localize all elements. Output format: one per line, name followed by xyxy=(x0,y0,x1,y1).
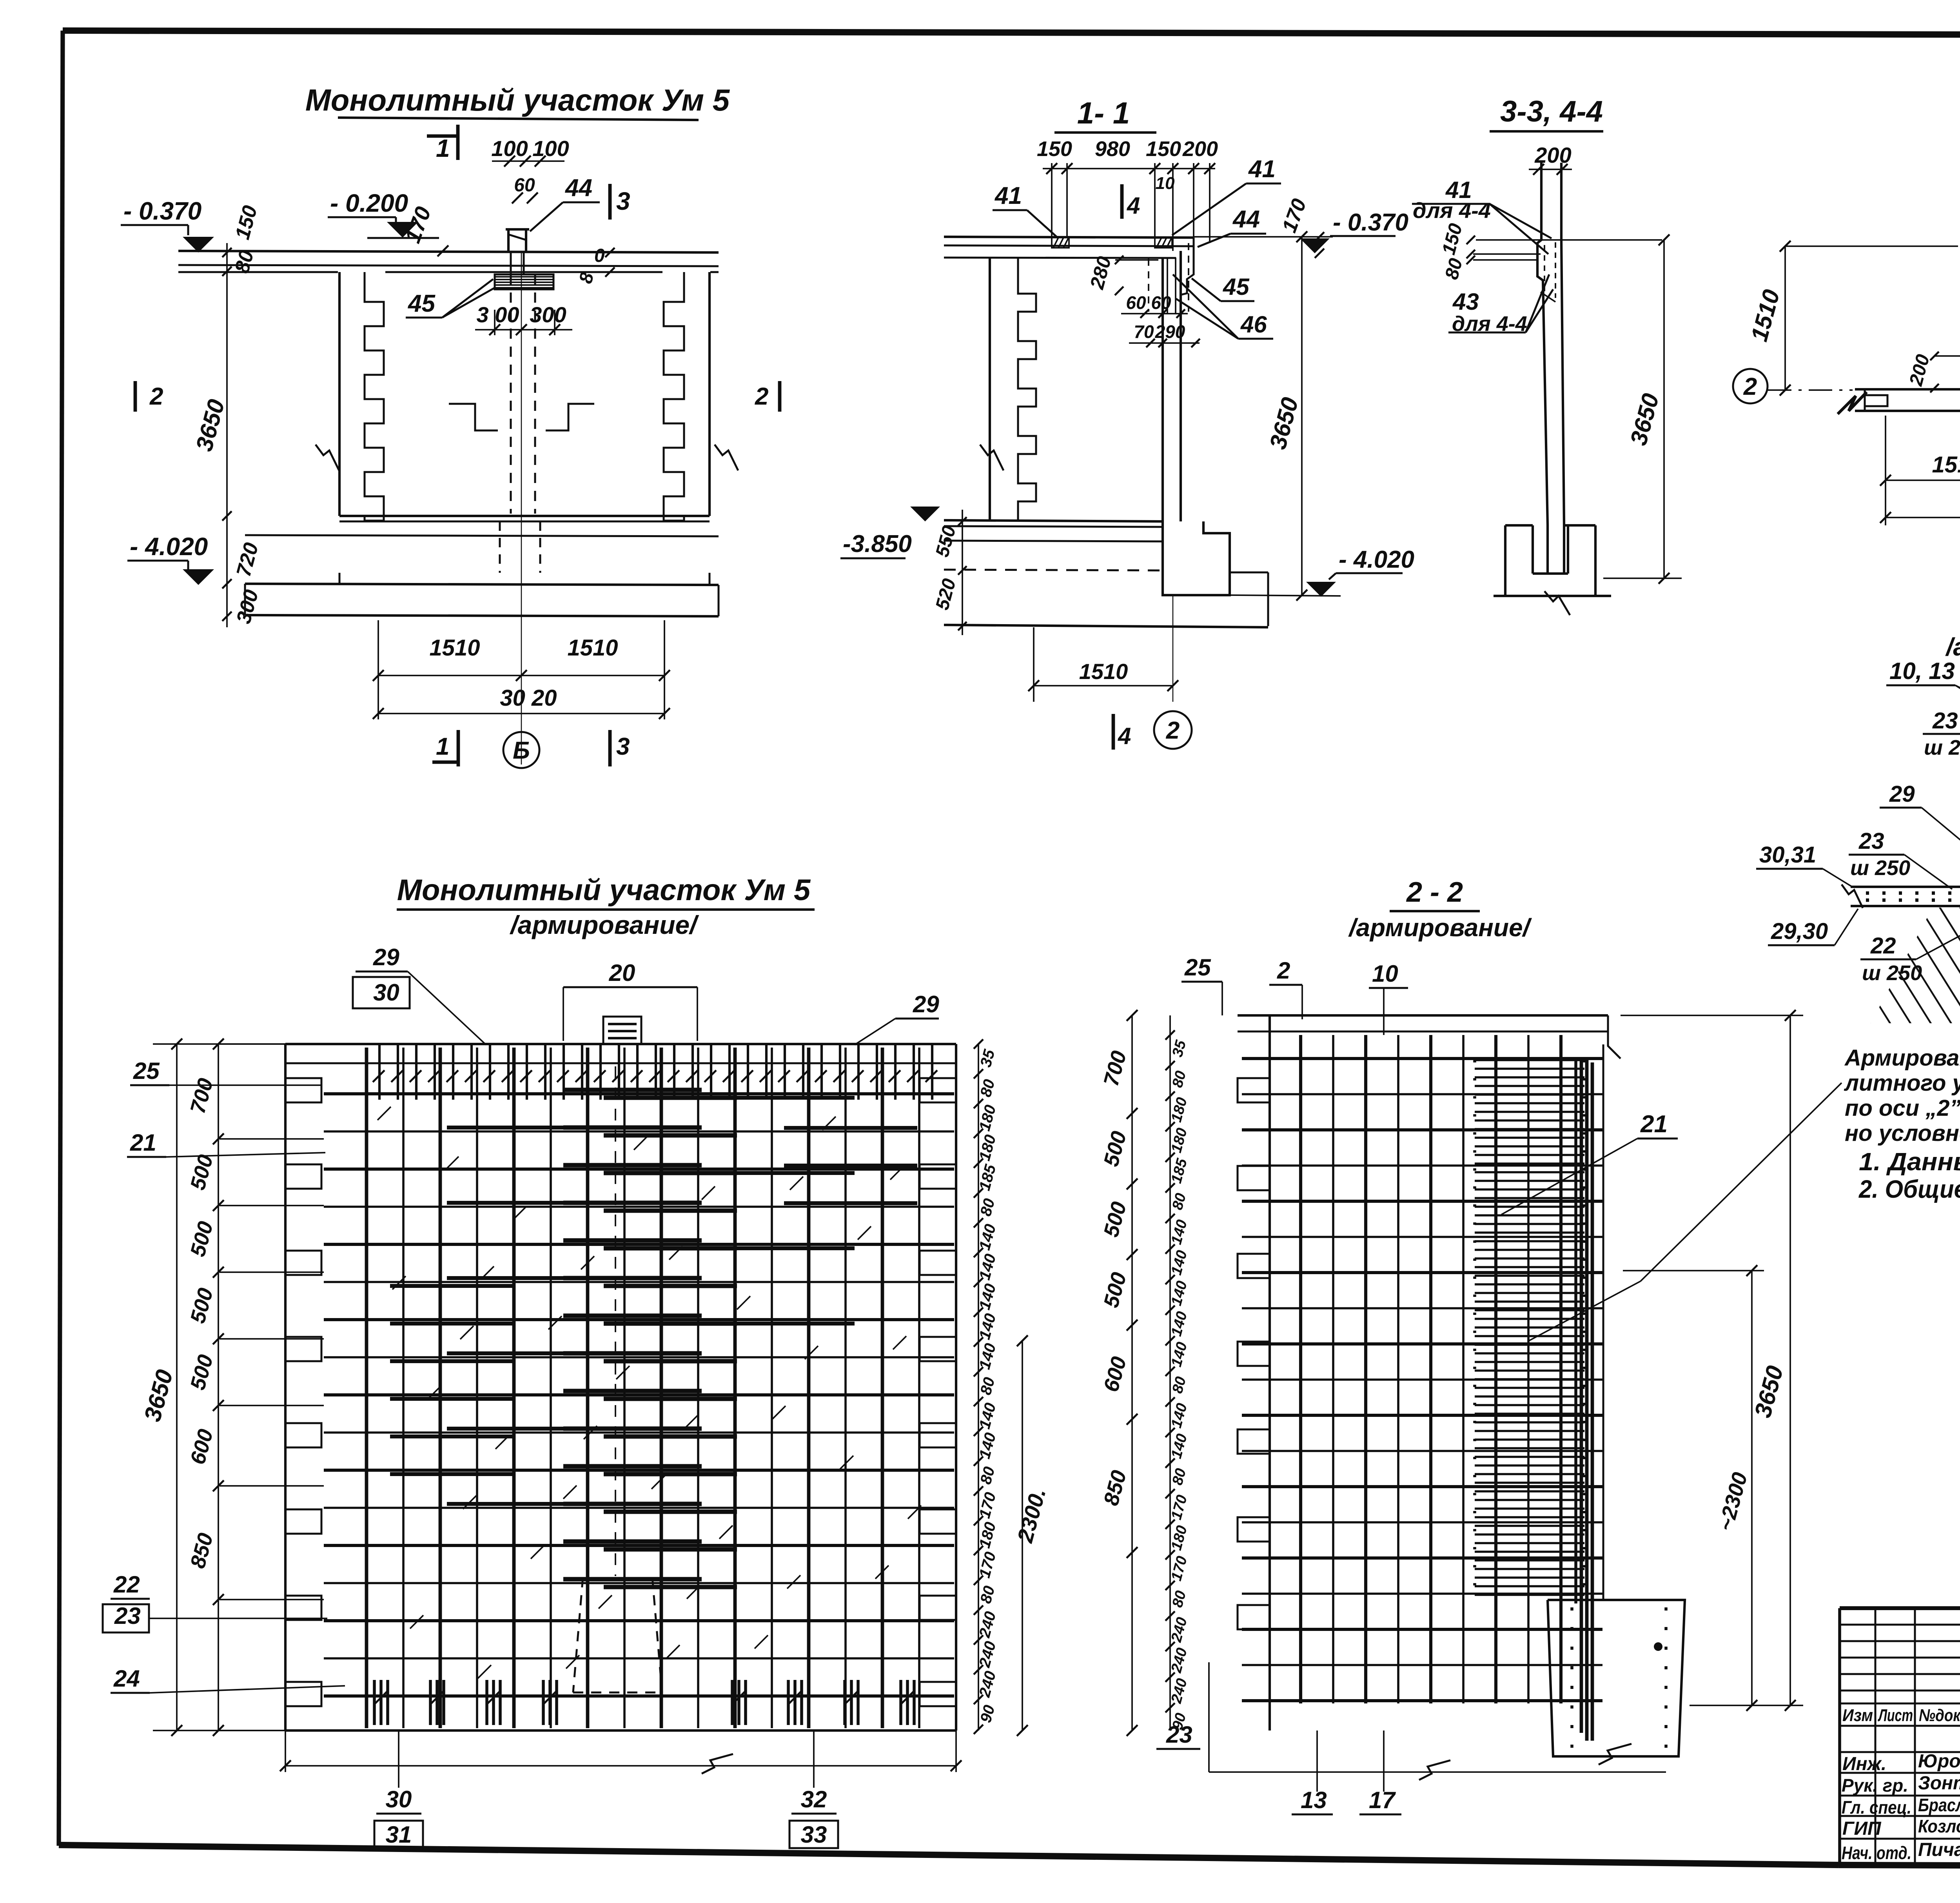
svg-text:10: 10 xyxy=(1156,174,1175,193)
2-2el left toothed edge xyxy=(1269,1015,1271,1730)
svg-text:- 4.020: - 4.020 xyxy=(130,532,208,561)
svg-text:60: 60 xyxy=(1151,292,1171,313)
svg-text:Зонтберг: Зонтберг xyxy=(1918,1773,1960,1794)
svg-text:0: 0 xyxy=(594,245,605,266)
svg-text:1. Данный лист комплектен с ли: 1. Данный лист комплектен с листами кж-6… xyxy=(1859,1148,1960,1176)
svg-text:- 0.200: - 0.200 xyxy=(330,189,408,217)
svg-text:1- 1: 1- 1 xyxy=(1077,96,1130,130)
embedded plate 45 (hatched) xyxy=(495,274,554,289)
svg-text:980: 980 xyxy=(1095,137,1130,161)
1-1 bottom dim 1510 xyxy=(1033,627,1034,702)
bottom hook clusters xyxy=(373,1680,376,1725)
foundation dashed under column xyxy=(499,521,501,573)
big plan bottom edge xyxy=(285,1729,956,1732)
svg-text:45: 45 xyxy=(1223,274,1250,300)
svg-text:4: 4 xyxy=(1118,723,1131,749)
svg-text:- 0.370: - 0.370 xyxy=(123,197,201,225)
2-2el dense rebar bundle xyxy=(1475,1059,1584,1061)
svg-text:но условно: но условно xyxy=(1845,1120,1960,1146)
svg-text:22: 22 xyxy=(113,1571,140,1598)
top center tab xyxy=(603,1017,641,1044)
mark 4 top xyxy=(1120,184,1124,219)
3-3 column tapered xyxy=(1537,163,1548,525)
3-3 footing xyxy=(1505,525,1548,574)
svg-text:ГИП: ГИП xyxy=(1842,1818,1882,1839)
2-2el right dim 2300 xyxy=(1751,1271,1753,1705)
svg-text:44: 44 xyxy=(1232,206,1260,233)
dim 1510 vertical left xyxy=(1784,246,1786,390)
svg-text:23: 23 xyxy=(114,1603,141,1629)
title block outer frame xyxy=(1840,1606,1960,1610)
svg-text:Рук. гр.: Рук. гр. xyxy=(1842,1775,1908,1796)
svg-text:150: 150 xyxy=(1146,137,1181,161)
svg-text:/армирование/: /армирование/ xyxy=(509,910,699,939)
svg-text:для 4-4: для 4-4 xyxy=(1413,198,1491,223)
wall break marks xyxy=(316,445,339,470)
svg-text:200: 200 xyxy=(1182,137,1218,161)
svg-text:17: 17 xyxy=(1369,1787,1396,1813)
svg-text:45: 45 xyxy=(407,290,436,317)
bottom dims 1510 1510 3020 xyxy=(377,620,379,719)
svg-text:2: 2 xyxy=(755,383,768,410)
1-1 column xyxy=(1161,258,1164,521)
svg-text:ш 250: ш 250 xyxy=(1924,736,1960,759)
floor slab lines xyxy=(339,515,710,517)
svg-text:10: 10 xyxy=(1372,961,1398,987)
svg-text:23: 23 xyxy=(1932,708,1958,734)
svg-text:21: 21 xyxy=(130,1129,156,1156)
svg-text:150: 150 xyxy=(1037,137,1072,161)
svg-text:Б: Б xyxy=(513,737,530,764)
big plan left toothed edge xyxy=(284,1044,287,1730)
leader from note to 2-2 view xyxy=(1641,1083,1842,1281)
svg-text:46: 46 xyxy=(1240,311,1267,338)
svg-text:Монолитный участок Ум 5: Монолитный участок Ум 5 xyxy=(397,873,811,907)
svg-text:/армирование/: /армирование/ xyxy=(1348,913,1532,942)
axis line Б vertical xyxy=(521,251,522,764)
2-2 slab plan lines xyxy=(1855,388,1960,390)
svg-text:Армирование моно-: Армирование моно- xyxy=(1844,1045,1960,1071)
svg-text:для 4-4: для 4-4 xyxy=(1452,312,1527,336)
svg-text:31: 31 xyxy=(386,1821,412,1848)
svg-text:30: 30 xyxy=(386,1786,412,1812)
1-1 left wall with teeth xyxy=(989,258,991,520)
svg-text:/армирование/: /армирование/ xyxy=(1945,633,1960,661)
svg-text:ш 250: ш 250 xyxy=(1850,856,1910,880)
svg-text:23: 23 xyxy=(1858,828,1884,854)
1-1 bottom base xyxy=(944,625,1268,627)
section mark 2 left xyxy=(134,381,137,412)
1-1 floor slab left of column xyxy=(944,520,1163,521)
section mark 3 bottom xyxy=(608,730,612,766)
svg-text:29: 29 xyxy=(373,944,399,970)
left fine dim chain 2-2el xyxy=(1169,1015,1171,1730)
svg-text:Нач. отд.: Нач. отд. xyxy=(1842,1843,1911,1863)
dim 2300 right xyxy=(1022,1341,1023,1730)
svg-text:Браславский: Браславский xyxy=(1918,1795,1960,1815)
svg-text:290: 290 xyxy=(1155,321,1185,342)
svg-text:33: 33 xyxy=(801,1821,827,1848)
svg-text:Лист: Лист xyxy=(1878,1706,1913,1725)
svg-text:29: 29 xyxy=(1889,781,1915,807)
center dashed axis xyxy=(615,1066,616,1576)
top slab of section Um5 xyxy=(178,251,719,252)
dashed column outline bottom center xyxy=(573,1577,583,1692)
2-2el grid verticals xyxy=(1299,1035,1302,1703)
svg-text:2 - 2: 2 - 2 xyxy=(1406,877,1463,908)
svg-text:22: 22 xyxy=(1870,933,1896,959)
svg-text:30 20: 30 20 xyxy=(500,685,557,711)
1-1 column footing xyxy=(1163,521,1230,595)
svg-text:2: 2 xyxy=(149,383,163,410)
3-3 top ref line and dim 3650 xyxy=(1476,239,1662,241)
center joint dashed lines xyxy=(510,274,512,514)
svg-text:100: 100 xyxy=(491,136,528,161)
dim chain left values xyxy=(218,1044,219,1730)
svg-text:29,30: 29,30 xyxy=(1771,919,1828,944)
svg-text:2: 2 xyxy=(1166,717,1180,744)
svg-text:21: 21 xyxy=(1640,1111,1668,1138)
svg-text:3: 3 xyxy=(616,733,630,760)
axis circle 2 with line xyxy=(1733,369,1768,403)
label 30/31 bottom xyxy=(398,1730,399,1788)
mark 4 bottom and axis circle 2 xyxy=(1112,714,1115,750)
svg-text:100: 100 xyxy=(532,136,569,161)
svg-text:43: 43 xyxy=(1452,289,1479,315)
2-2el grid horizontals xyxy=(1242,1057,1602,1060)
intersection tick marks xyxy=(377,1107,391,1120)
section mark 2 right xyxy=(778,381,782,412)
1-1 dim 3650 right xyxy=(1301,237,1303,595)
center splice thick bars xyxy=(563,1088,702,1092)
svg-text:Козловская: Козловская xyxy=(1918,1816,1960,1836)
grid vertical bars xyxy=(365,1048,368,1728)
svg-text:1510: 1510 xyxy=(1079,659,1128,684)
2-2det slab xyxy=(1851,886,1960,888)
column stub above slab xyxy=(507,229,510,251)
center step detail xyxy=(449,404,498,430)
svg-text:литного участка: литного участка xyxy=(1844,1070,1960,1096)
svg-text:Пичахчи: Пичахчи xyxy=(1918,1839,1960,1860)
svg-text:60: 60 xyxy=(1126,292,1146,313)
svg-text:2: 2 xyxy=(1743,373,1757,400)
2-2el right boundary xyxy=(1602,1044,1604,1600)
svg-text:- 4.020: - 4.020 xyxy=(1339,546,1414,573)
svg-text:20: 20 xyxy=(609,960,635,986)
svg-text:24: 24 xyxy=(113,1665,140,1692)
1-1 top slab xyxy=(944,237,1194,238)
dim chain 3650 leftmost xyxy=(176,1044,178,1730)
svg-text:№документа: №документа xyxy=(1919,1706,1960,1725)
axis circle Б xyxy=(503,732,539,768)
svg-text:41: 41 xyxy=(1248,156,1276,183)
2-2el top band xyxy=(1238,1014,1608,1017)
big plan right toothed edge xyxy=(955,1044,957,1730)
svg-text:25: 25 xyxy=(1184,954,1211,981)
svg-text:29: 29 xyxy=(913,991,939,1017)
svg-text:70: 70 xyxy=(1134,321,1154,342)
bottom base slab xyxy=(245,584,719,585)
section mark 1 (top) xyxy=(427,134,458,138)
bottom dim line with break xyxy=(285,1730,286,1772)
big plan top edge xyxy=(285,1043,956,1045)
left dim line 3650 xyxy=(226,243,228,627)
long leader from note text xyxy=(1529,1281,1641,1341)
dim 3020 xyxy=(1886,517,1960,518)
svg-text:200: 200 xyxy=(1534,143,1571,167)
section mark 3 (top) xyxy=(608,184,612,220)
svg-text:3-3, 4-4: 3-3, 4-4 xyxy=(1500,95,1603,128)
title block left row lines xyxy=(1840,1624,1960,1626)
svg-text:- 0.370: - 0.370 xyxy=(1333,209,1408,236)
svg-text:25: 25 xyxy=(133,1058,160,1084)
label 32/33 bottom xyxy=(813,1730,815,1788)
svg-text:13: 13 xyxy=(1301,1787,1327,1813)
2-2el right dim 3650 xyxy=(1789,1015,1791,1705)
right upper splice bars xyxy=(784,1126,917,1130)
svg-text:Монолитный участок Ум 5: Монолитный участок Ум 5 xyxy=(305,83,730,117)
2-2el heavy vertical bars right xyxy=(1574,1059,1577,1603)
slab left end notch xyxy=(1864,389,1866,411)
right wall with dovetail teeth xyxy=(708,272,711,516)
svg-text:30: 30 xyxy=(373,979,399,1006)
svg-text:по оси „2” показа-: по оси „2” показа- xyxy=(1845,1095,1960,1121)
svg-text:32: 32 xyxy=(801,1786,827,1812)
anchor plates hatched xyxy=(1052,238,1069,248)
dims 1510 1510 bottom xyxy=(1885,416,1886,525)
svg-text:1: 1 xyxy=(436,733,449,760)
sheet border frame xyxy=(63,31,1960,36)
svg-text:44: 44 xyxy=(564,174,592,202)
left block splice bars xyxy=(390,1284,514,1288)
svg-text:ш 250: ш 250 xyxy=(1862,961,1922,985)
svg-text:30,31: 30,31 xyxy=(1759,842,1816,868)
svg-text:60: 60 xyxy=(514,175,535,196)
section mark 1 bottom xyxy=(432,761,458,764)
grid horizontal bars xyxy=(324,1092,954,1095)
grid top hook ticks xyxy=(378,1045,381,1100)
svg-text:1510: 1510 xyxy=(429,635,480,661)
svg-text:1510: 1510 xyxy=(1932,452,1960,478)
svg-text:2. Общие примечания см. лист: 2. Общие примечания см. лист кж-11 xyxy=(1858,1175,1960,1203)
title block left columns xyxy=(1875,1608,1877,1865)
svg-text:41: 41 xyxy=(994,182,1022,209)
svg-text:10, 13: 10, 13 xyxy=(1889,658,1955,684)
svg-text:2: 2 xyxy=(1277,957,1290,984)
svg-text:1: 1 xyxy=(436,134,450,162)
2-2det hatch below slab xyxy=(1871,908,1960,1023)
2-2el footing xyxy=(1548,1600,1685,1756)
svg-text:-3.850: -3.850 xyxy=(843,530,912,557)
2-2el bundle end dots xyxy=(1473,1060,1476,1598)
svg-text:4: 4 xyxy=(1127,192,1140,219)
slab break arrows xyxy=(1838,392,1867,414)
svg-text:23: 23 xyxy=(1166,1721,1192,1748)
corbel dashed detail xyxy=(1544,245,1545,292)
svg-text:1510: 1510 xyxy=(567,635,618,661)
left dim chain values 2-2el xyxy=(1131,1015,1133,1730)
left wall with dovetail teeth xyxy=(338,272,341,516)
svg-text:3: 3 xyxy=(616,187,630,215)
svg-text:Инж.: Инж. xyxy=(1842,1754,1886,1774)
svg-text:3 00: 3 00 xyxy=(477,302,519,327)
svg-text:Юровский: Юровский xyxy=(1918,1751,1960,1772)
right fine dim chain xyxy=(978,1044,979,1730)
svg-text:Гл. спец.: Гл. спец. xyxy=(1842,1797,1911,1818)
svg-text:Изм: Изм xyxy=(1842,1706,1873,1725)
